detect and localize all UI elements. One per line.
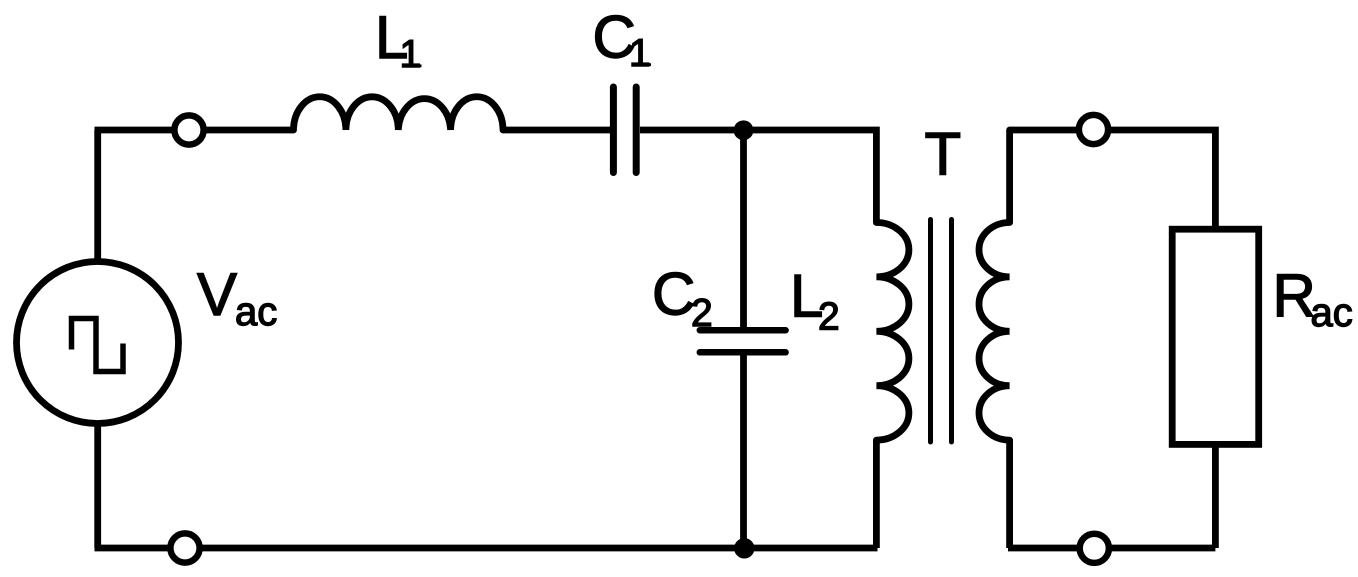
- svg-text:T: T: [925, 120, 962, 187]
- svg-text:2: 2: [691, 292, 713, 335]
- svg-text:1: 1: [400, 33, 422, 76]
- svg-text:ac: ac: [1311, 291, 1353, 335]
- svg-text:V: V: [197, 261, 237, 328]
- svg-text:C: C: [652, 261, 695, 328]
- svg-text:2: 2: [818, 295, 840, 338]
- svg-text:1: 1: [629, 32, 651, 75]
- svg-text:R: R: [1273, 263, 1316, 330]
- svg-text:ac: ac: [235, 290, 277, 334]
